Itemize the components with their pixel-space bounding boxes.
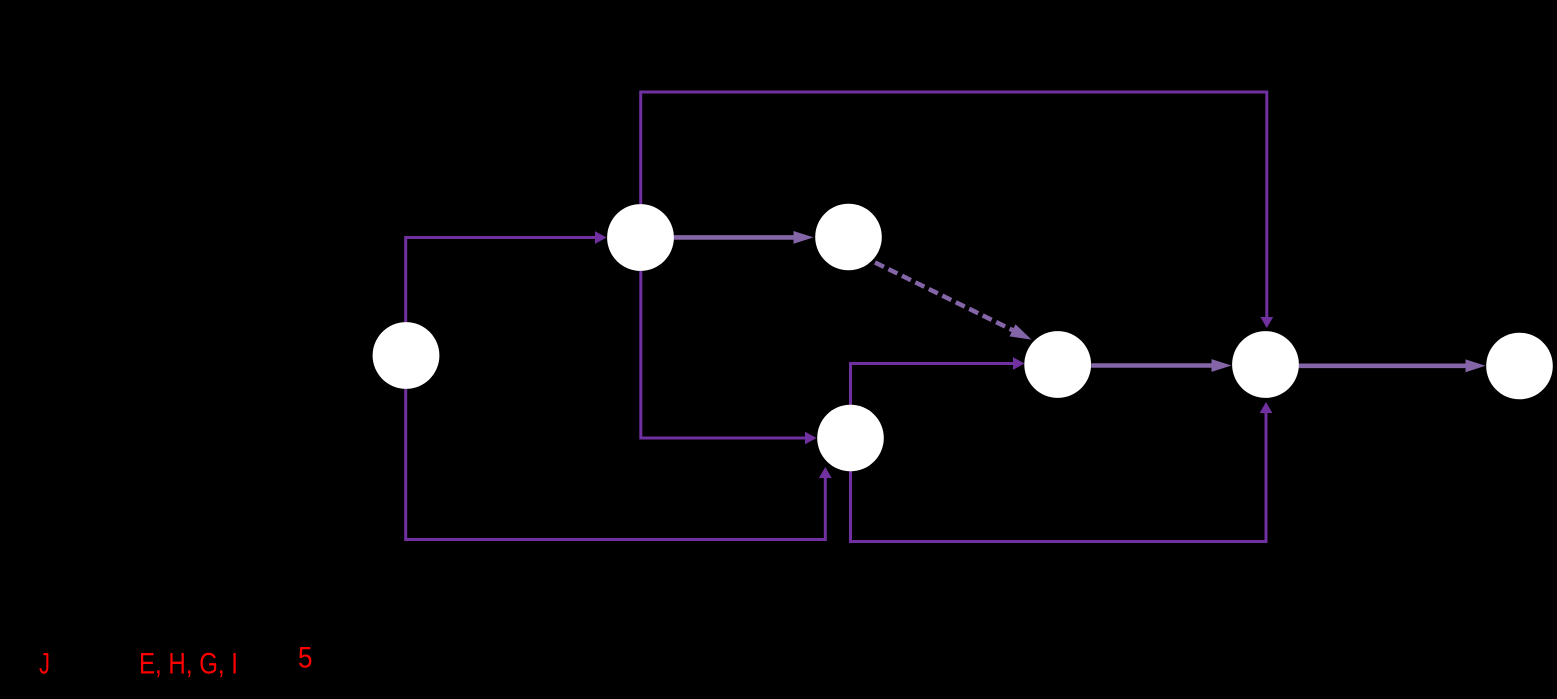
node C1	[373, 322, 440, 389]
node C6	[1232, 331, 1299, 398]
svg-text:5: 5	[298, 642, 313, 675]
wire C1 top to C2 left	[406, 231, 607, 322]
svg-text:E, H, G, I: E, H, G, I	[139, 648, 238, 681]
wire C4 bottom around to C6 bottom	[851, 402, 1273, 542]
wire C4 top to C5 left	[851, 357, 1025, 405]
wire C2 bottom to C4 left	[641, 271, 817, 444]
node C7	[1486, 333, 1553, 400]
node C3	[815, 204, 882, 271]
arrow C2 to C3	[674, 231, 814, 244]
svg-text:J: J	[39, 648, 50, 681]
wire C2 top across to C6 top	[641, 92, 1273, 328]
arrow C6 to C7	[1299, 359, 1486, 372]
dashed arrow C3 to C5	[875, 263, 1032, 340]
arrow C5 to C6	[1091, 359, 1231, 372]
node C4	[817, 405, 884, 472]
node C2	[607, 204, 674, 271]
wire C1 bottom around to C4 bottom	[406, 389, 832, 540]
node C5	[1024, 331, 1091, 398]
